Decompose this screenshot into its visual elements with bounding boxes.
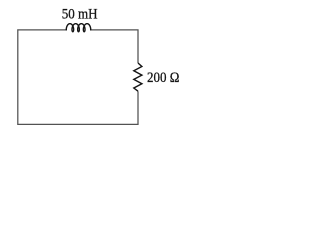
wire: top-left segment, left side, bottom side, lower-right segment — [18, 30, 138, 125]
wire: upper-right segment and top-right segment — [91, 30, 138, 63]
resistor R1 (200 ohm) — [134, 63, 142, 91]
inductor L1 (50 mH) — [66, 24, 90, 32]
svg-text:200 Ω: 200 Ω — [147, 69, 179, 85]
svg-text:50 mH: 50 mH — [62, 6, 98, 22]
